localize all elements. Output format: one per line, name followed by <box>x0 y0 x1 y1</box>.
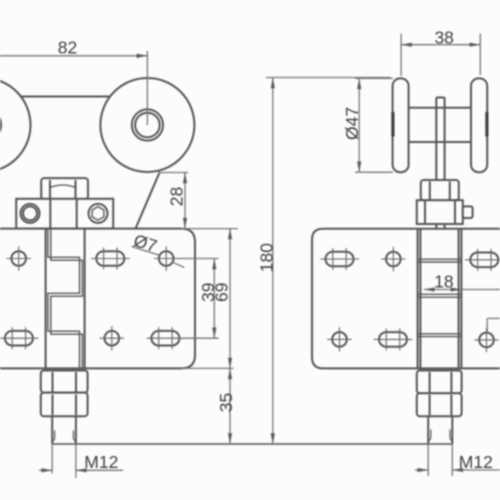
dim Ø47 ticks <box>355 77 393 79</box>
hinge seam zigzag <box>48 229 83 369</box>
bracket right diagonal edge <box>136 172 160 229</box>
clamp block (side view) <box>417 200 463 224</box>
dim 39 line <box>213 259 215 339</box>
adjuster nut (side view) <box>421 180 459 200</box>
hinge strip outer lines (front view) <box>45 229 47 369</box>
svg-text:M12: M12 <box>84 452 118 472</box>
threaded rod (side view) <box>427 416 429 444</box>
plate holes side view row2 <box>332 332 494 347</box>
M12 left ext lines <box>51 444 53 474</box>
axle housing block <box>16 199 113 229</box>
dim 82 line <box>0 55 147 57</box>
dim 38 line <box>401 44 480 46</box>
hinge strip (side view) <box>418 229 462 369</box>
M12 left dim line <box>39 469 52 471</box>
dim Ø47 line <box>358 78 360 172</box>
wheel left (front view, partially cut at edge) <box>0 78 31 172</box>
M12 right dim line <box>415 469 428 471</box>
svg-text:35: 35 <box>216 393 236 412</box>
dim 18 line <box>424 289 500 291</box>
suspension bolt nut 1 (front view) <box>41 371 88 393</box>
M12 right ext lines <box>427 444 429 476</box>
plate holes front view row2 <box>5 331 180 346</box>
svg-text:69: 69 <box>212 283 232 302</box>
svg-text:Ø47: Ø47 <box>342 107 362 140</box>
wheel pair left profile <box>393 78 409 172</box>
row2 centerline ticks <box>0 326 184 350</box>
leader Ø7 <box>132 247 160 256</box>
hub of left wheel <box>0 109 1 140</box>
dim 28 top tick <box>159 172 189 174</box>
svg-text:18: 18 <box>434 272 453 292</box>
suspension bolt nut 2 (front view) <box>41 393 88 417</box>
svg-text:82: 82 <box>58 38 77 58</box>
plate top extension (28 bottom / 69 top) <box>181 228 238 230</box>
axle nut (front view top) <box>41 178 88 199</box>
dim 28 line <box>184 173 186 229</box>
dim 38 ext lines <box>400 34 402 77</box>
arrowheads <box>42 43 481 473</box>
dim 180 top tick <box>266 77 391 79</box>
dim 82 extension <box>146 51 148 125</box>
wheel pair right profile <box>471 78 487 172</box>
plate holes side view row1 <box>326 252 499 267</box>
bracket top edge between wheels <box>21 96 109 98</box>
dim 69/35 line <box>229 229 231 444</box>
svg-text:180: 180 <box>257 243 277 272</box>
dimension texts <box>58 27 493 472</box>
hub outer ring <box>132 109 163 140</box>
hub bore <box>135 113 160 138</box>
dim 39 ticks <box>175 258 219 260</box>
svg-text:M12: M12 <box>459 452 493 472</box>
row1 centerline ticks <box>7 246 179 270</box>
leader hole side view <box>487 317 500 319</box>
hinge knuckle rungs <box>418 259 462 336</box>
plate holes front view row1 <box>11 251 173 266</box>
threaded rod (front view) <box>51 416 53 444</box>
side bolt head <box>463 206 473 218</box>
axle hub lines between wheels <box>409 107 471 109</box>
hanger bar (side view) <box>436 98 444 229</box>
bottom reference line <box>52 443 452 445</box>
svg-text:28: 28 <box>167 187 187 206</box>
mounting plate (side view) <box>312 229 500 369</box>
mounting plate (front view) <box>0 229 195 369</box>
dim 180 line <box>272 78 274 445</box>
svg-text:38: 38 <box>434 27 453 47</box>
wheel right (front view) <box>100 78 194 172</box>
wheel groove marks <box>393 112 487 137</box>
plate bottom extension <box>181 367 234 369</box>
suspension bolt nut 1 (side view) <box>417 371 462 394</box>
suspension bolt nut 2 (side view) <box>417 393 462 416</box>
